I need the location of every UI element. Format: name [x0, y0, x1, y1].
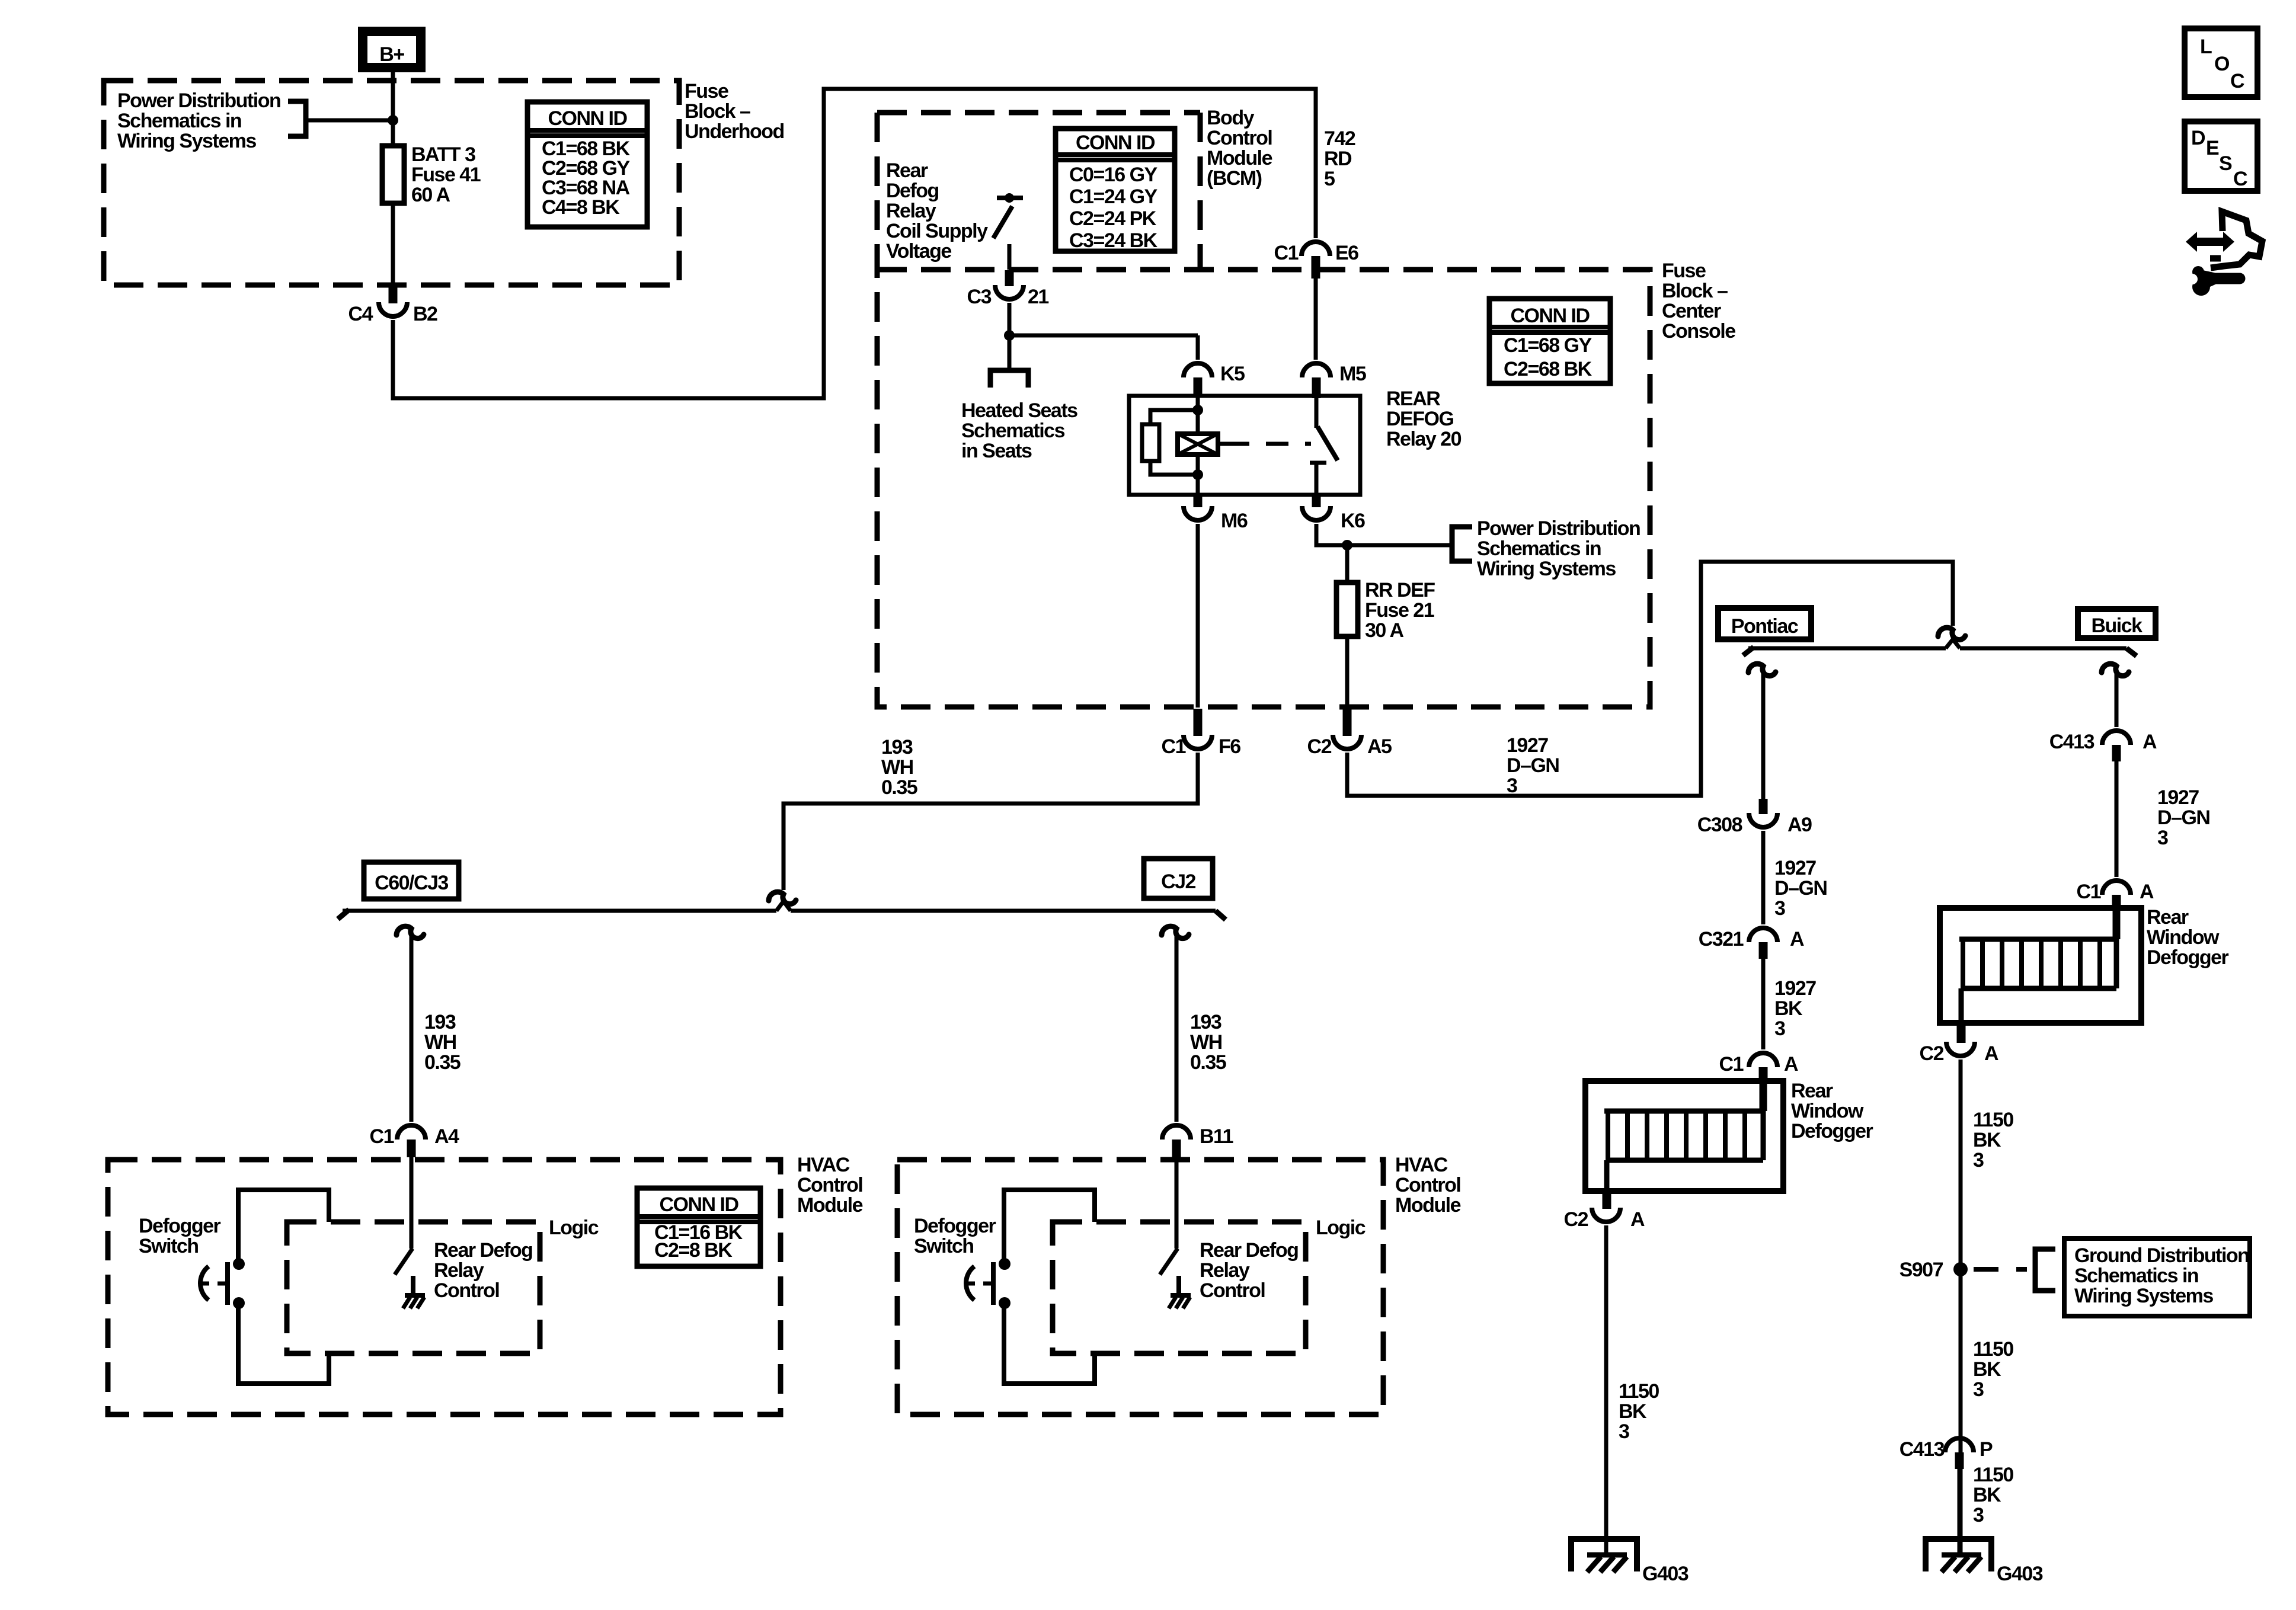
svg-text:30 A: 30 A [1365, 619, 1404, 642]
svg-text:K5: K5 [1220, 363, 1245, 385]
svg-text:S: S [2219, 152, 2232, 175]
vehicle label box: Buick [2078, 609, 2156, 638]
svg-text:3: 3 [1619, 1420, 1629, 1443]
wire: E6 to relay M5 [1314, 279, 1318, 360]
wire: C413 to C1 (Buick) [2115, 761, 2119, 877]
svg-text:C413: C413 [1900, 1438, 1945, 1461]
svg-text:193: 193 [424, 1011, 456, 1033]
svg-text:60 A: 60 A [411, 184, 450, 206]
switch: rear defog relay coil supply (in BCM) [997, 196, 1023, 200]
svg-text:C2: C2 [1564, 1208, 1588, 1231]
svg-text:A: A [2142, 731, 2157, 753]
svg-text:Defogger: Defogger [2147, 946, 2229, 969]
icon box: DESC [2185, 121, 2257, 191]
svg-text:Control: Control [1395, 1174, 1460, 1196]
connector C1/A4 [397, 1125, 426, 1140]
svg-text:WH: WH [1190, 1031, 1222, 1054]
svg-text:A5: A5 [1367, 735, 1392, 758]
svg-text:C0=16 GY: C0=16 GY [1069, 164, 1158, 186]
svg-text:A9: A9 [1787, 814, 1812, 836]
bus tap pigtail at F6 drop [769, 892, 796, 904]
bus drop pigtail (Pontiac) [1748, 664, 1776, 676]
svg-text:C2: C2 [1307, 735, 1332, 758]
junction box label C60/CJ3 [364, 862, 459, 899]
svg-text:BK: BK [1973, 1129, 2001, 1151]
svg-text:Defogger: Defogger [1791, 1120, 1873, 1142]
svg-text:1927: 1927 [1774, 977, 1816, 1000]
svg-text:REAR: REAR [1386, 388, 1440, 410]
junction box label CJ2 [1144, 859, 1213, 898]
svg-text:(BCM): (BCM) [1207, 167, 1262, 190]
connector C413/A [2102, 731, 2131, 745]
svg-text:Wiring Systems: Wiring Systems [2074, 1285, 2213, 1307]
svg-text:BK: BK [1973, 1484, 2001, 1506]
wire: bus to C1/A4 [410, 935, 414, 1122]
svg-text:D–GN: D–GN [1774, 877, 1827, 900]
svg-text:C321: C321 [1699, 928, 1744, 950]
svg-text:C3=24 BK: C3=24 BK [1069, 229, 1158, 252]
svg-text:C1: C1 [1274, 242, 1299, 264]
svg-text:E6: E6 [1335, 242, 1358, 264]
svg-text:C413: C413 [2049, 731, 2094, 753]
connector B11 [1162, 1125, 1191, 1140]
wire: C308 to C321 [1761, 831, 1766, 924]
svg-text:BK: BK [1619, 1400, 1647, 1423]
bus break at F6 drop [776, 901, 791, 911]
CONN ID table (center console) [1489, 299, 1610, 383]
svg-text:B11: B11 [1200, 1125, 1233, 1148]
connector C2/A5 [1343, 709, 1352, 736]
wire: junction to power distribution bracket [1347, 543, 1452, 548]
wire: C4/B2 to BCM E6 [393, 89, 1316, 398]
svg-text:1150: 1150 [1973, 1338, 2013, 1361]
svg-text:D–GN: D–GN [2157, 806, 2209, 829]
svg-text:Heated Seats: Heated Seats [961, 399, 1077, 422]
svg-text:742: 742 [1324, 127, 1355, 150]
svg-text:Fuse 41: Fuse 41 [411, 164, 481, 186]
connector C1/F6 [1194, 709, 1203, 736]
svg-text:BATT 3: BATT 3 [411, 143, 475, 166]
wire: C3/21 down to heated-seats tap [1008, 303, 1012, 369]
bus drop pigtail (right HVAC) [1162, 926, 1189, 938]
svg-text:Defog: Defog [886, 180, 939, 202]
svg-text:Center: Center [1662, 300, 1721, 322]
svg-text:RD: RD [1324, 148, 1352, 170]
svg-text:WH: WH [424, 1031, 456, 1054]
wire: bus to C413 [2115, 673, 2119, 727]
wire to power distribution bracket [306, 119, 393, 123]
svg-text:Relay: Relay [1200, 1259, 1250, 1282]
wire: C2 to ground G403 (Pontiac) [1604, 1225, 1609, 1555]
svg-text:3: 3 [1774, 897, 1785, 920]
push-button defogger switch (right) [999, 1258, 1011, 1270]
dashed box: HVAC Control Module (left) [108, 1160, 781, 1414]
svg-text:HVAC: HVAC [1395, 1154, 1448, 1176]
wire: C413/P to ground G403 (Buick) [1958, 1469, 1962, 1555]
connector M6 [1194, 495, 1203, 507]
off-page bracket: Power Distribution (center) [1452, 527, 1472, 561]
connector C1/E6 [1302, 242, 1330, 256]
svg-text:D–GN: D–GN [1507, 754, 1559, 777]
svg-text:Schematics in: Schematics in [1477, 537, 1601, 560]
junction on B+ feed [388, 115, 398, 126]
svg-text:C: C [2230, 70, 2244, 92]
svg-text:CJ2: CJ2 [1161, 870, 1195, 893]
icon box: LOC [2185, 28, 2257, 97]
svg-text:Logic: Logic [549, 1217, 599, 1239]
svg-text:0.35: 0.35 [881, 776, 917, 799]
connector C413/P [1945, 1438, 1974, 1452]
svg-text:C2=24 PK: C2=24 PK [1069, 207, 1157, 230]
svg-text:F6: F6 [1219, 735, 1240, 758]
vehicle label box: Pontiac [1718, 608, 1811, 639]
svg-text:G403: G403 [1642, 1563, 1689, 1585]
svg-text:1150: 1150 [1973, 1109, 2013, 1131]
svg-text:CONN ID: CONN ID [659, 1193, 738, 1216]
wire: A4 into logic switch [410, 1157, 414, 1249]
wire: C321 to C1 [1761, 959, 1766, 1049]
dashed box: Fuse Block - Center Console [877, 270, 1650, 707]
dashed box: Body Control Module (BCM) [877, 110, 1200, 116]
fuse RR DEF Fuse 21 30 A [1345, 545, 1350, 582]
svg-text:C1=68 GY: C1=68 GY [1504, 334, 1593, 357]
svg-text:Pontiac: Pontiac [1731, 615, 1798, 638]
svg-text:Block –: Block – [685, 100, 750, 123]
Rear Window Defogger (Buick) [1940, 908, 2141, 1023]
svg-text:C2=8 BK: C2=8 BK [654, 1239, 733, 1262]
svg-text:Power Distribution: Power Distribution [1477, 517, 1640, 540]
svg-text:Switch: Switch [914, 1235, 974, 1257]
bus tap pigtail at A5 drop [1938, 628, 1965, 639]
svg-text:Schematics: Schematics [961, 420, 1065, 442]
svg-text:Fuse 21: Fuse 21 [1365, 599, 1434, 622]
svg-text:Rear: Rear [886, 159, 928, 182]
svg-text:C: C [2233, 168, 2247, 190]
svg-text:C2=68 BK: C2=68 BK [1504, 358, 1593, 380]
wire: F6 to C60/CJ3 bus [784, 753, 1198, 890]
svg-text:C4=8 BK: C4=8 BK [542, 196, 620, 219]
svg-text:Defogger: Defogger [139, 1215, 221, 1237]
connector C2/A (Buick defogger) [1957, 1023, 1966, 1043]
junction to K5 [1004, 330, 1015, 341]
svg-text:Coil Supply: Coil Supply [886, 220, 988, 242]
svg-text:193: 193 [881, 736, 913, 758]
svg-text:P: P [1980, 1438, 1993, 1461]
wrench [2192, 266, 2204, 278]
CONN ID table (underhood) [527, 102, 647, 227]
svg-text:A4: A4 [434, 1125, 459, 1148]
connector C3/21 [1005, 270, 1014, 286]
svg-text:5: 5 [1324, 168, 1335, 190]
svg-text:Rear: Rear [2147, 906, 2189, 929]
svg-text:CONN ID: CONN ID [1510, 305, 1590, 327]
svg-text:Relay 20: Relay 20 [1386, 428, 1462, 450]
power symbol B+ [358, 27, 426, 72]
wire: K6 to fuse junction [1316, 524, 1347, 545]
fuse BATT 3 Fuse 41 60 A [382, 146, 404, 203]
connector K5 [1184, 363, 1212, 377]
relay coil branch wiring [1196, 396, 1200, 434]
bus drop pigtail (Buick) [2102, 664, 2129, 676]
svg-text:CONN ID: CONN ID [548, 107, 627, 130]
connector C308/A9 [1759, 799, 1768, 814]
svg-text:M6: M6 [1221, 510, 1248, 532]
svg-text:Schematics in: Schematics in [117, 110, 241, 132]
wire: fuse to C4 connector [391, 203, 395, 285]
svg-text:A: A [1984, 1042, 1998, 1065]
resistor (relay suppression) [1142, 424, 1159, 461]
wire: B11 into logic switch [1175, 1157, 1179, 1249]
svg-text:0.35: 0.35 [424, 1051, 461, 1074]
dashed box: Fuse Block - Underhood [104, 81, 679, 285]
svg-text:Switch: Switch [139, 1235, 199, 1257]
dashed box: Logic (left) [287, 1222, 540, 1353]
svg-text:21: 21 [1028, 286, 1048, 308]
switch carrier box (right defogger switch) [1004, 1190, 1095, 1259]
svg-text:C2: C2 [1920, 1042, 1944, 1065]
CONN ID table (BCM) [1056, 129, 1175, 251]
svg-text:Defogger: Defogger [914, 1215, 996, 1237]
svg-text:B+: B+ [379, 43, 404, 66]
svg-text:1927: 1927 [1774, 857, 1816, 879]
svg-text:Logic: Logic [1316, 1217, 1366, 1239]
svg-text:Wiring Systems: Wiring Systems [1477, 558, 1616, 580]
svg-text:3: 3 [1507, 774, 1517, 797]
svg-text:Rear: Rear [1791, 1080, 1833, 1102]
connector K6 [1312, 495, 1321, 507]
svg-text:C1=24 GY: C1=24 GY [1069, 185, 1158, 208]
switch: rear defog relay control (right) [1160, 1249, 1178, 1275]
svg-text:M5: M5 [1339, 363, 1366, 385]
Rear Window Defogger (Pontiac) [1585, 1081, 1783, 1191]
svg-text:DEFOG: DEFOG [1386, 408, 1453, 430]
dashed link: S907 to ground distribution [1974, 1267, 2027, 1272]
connector C1/A (Pontiac defogger) [1749, 1053, 1777, 1067]
splice S907 [1953, 1262, 1968, 1276]
dashed box: HVAC Control Module (right) [897, 1160, 1383, 1414]
connector M5 [1302, 363, 1331, 377]
svg-text:D: D [2191, 127, 2205, 149]
bus wire C60/CJ3-CJ2 [338, 910, 349, 919]
svg-text:C3: C3 [967, 286, 992, 308]
relay box: REAR DEFOG Relay 20 [1129, 396, 1360, 495]
svg-text:CONN ID: CONN ID [1076, 132, 1155, 154]
switch carrier box (left defogger switch) [238, 1190, 329, 1259]
svg-text:C308: C308 [1697, 814, 1742, 836]
svg-text:S907: S907 [1900, 1259, 1943, 1281]
bus wire Pontiac-Buick [1743, 647, 1754, 655]
dashed box: Logic (right) [1053, 1222, 1306, 1353]
svg-text:Ground Distribution: Ground Distribution [2074, 1244, 2249, 1267]
svg-text:Module: Module [797, 1194, 863, 1217]
svg-text:RR DEF: RR DEF [1365, 579, 1435, 601]
svg-text:A: A [2140, 881, 2154, 903]
connector C2/A (Pontiac defogger) [1603, 1191, 1611, 1209]
ground G403 (Buick) [1926, 1539, 1991, 1571]
svg-text:L: L [2200, 36, 2212, 58]
svg-text:3: 3 [1973, 1504, 1984, 1526]
svg-text:BK: BK [1973, 1358, 2001, 1381]
svg-text:C1: C1 [370, 1125, 394, 1148]
svg-text:Body: Body [1207, 107, 1255, 129]
svg-text:Schematics in: Schematics in [2074, 1265, 2198, 1287]
svg-text:K6: K6 [1341, 510, 1365, 532]
svg-text:Buick: Buick [2091, 614, 2142, 637]
svg-text:Console: Console [1662, 320, 1735, 343]
wire: B+ drop into fuse block [391, 72, 395, 146]
off-page bracket: Ground Distribution [2035, 1249, 2055, 1291]
wire: M6 down to C1/F6 [1196, 524, 1200, 708]
junction at RR DEF fuse [1342, 540, 1352, 550]
svg-text:Voltage: Voltage [886, 240, 951, 263]
svg-text:Window: Window [2147, 926, 2220, 949]
svg-text:3: 3 [1774, 1017, 1785, 1040]
svg-text:3: 3 [1973, 1378, 1984, 1401]
svg-text:A: A [1784, 1053, 1798, 1076]
ground G403 (Pontiac) [1571, 1539, 1637, 1571]
svg-text:C1: C1 [1719, 1053, 1744, 1076]
box: Ground Distribution Schematics in Wiring Systems [2064, 1238, 2250, 1316]
CONN ID table (HVAC) [637, 1188, 760, 1266]
svg-text:Relay: Relay [886, 200, 936, 222]
svg-text:C4: C4 [348, 303, 373, 325]
svg-text:Rear Defog: Rear Defog [434, 1239, 532, 1262]
svg-text:E: E [2206, 137, 2219, 159]
svg-text:Control: Control [1207, 127, 1272, 149]
switch: rear defog relay control (left) [395, 1249, 412, 1275]
svg-text:Block –: Block – [1662, 280, 1728, 302]
wire: junction to K5 [1009, 334, 1198, 338]
svg-text:1927: 1927 [1507, 734, 1548, 757]
svg-text:Module: Module [1395, 1194, 1461, 1217]
svg-text:C1: C1 [1162, 735, 1186, 758]
wire: A5 to Pontiac/Buick bus [1347, 562, 1953, 796]
svg-text:3: 3 [1973, 1149, 1984, 1172]
svg-text:A: A [1790, 928, 1804, 950]
push-button defogger switch (left) [233, 1258, 245, 1270]
svg-text:1150: 1150 [1619, 1380, 1659, 1403]
svg-text:Control: Control [797, 1174, 862, 1196]
svg-text:Window: Window [1791, 1100, 1864, 1122]
svg-text:0.35: 0.35 [1190, 1051, 1226, 1074]
svg-text:Underhood: Underhood [685, 120, 784, 143]
svg-text:WH: WH [881, 756, 913, 779]
svg-text:1150: 1150 [1973, 1464, 2013, 1486]
coil to contact dashed link [1218, 442, 1227, 446]
svg-text:1927: 1927 [2157, 786, 2199, 809]
svg-text:BK: BK [1774, 997, 1803, 1020]
svg-text:Control: Control [1200, 1279, 1265, 1302]
connector C321/A [1749, 928, 1777, 942]
wire: C2 to ground G403 (Buick) [1959, 1060, 1963, 1555]
svg-text:C1: C1 [2077, 881, 2101, 903]
off-page bracket: Power Distribution [288, 101, 306, 136]
svg-text:C60/CJ3: C60/CJ3 [375, 872, 448, 894]
wire: bus to C308 [1761, 673, 1766, 799]
svg-text:Fuse: Fuse [685, 80, 728, 103]
svg-text:193: 193 [1190, 1011, 1221, 1033]
relay coil [1178, 434, 1218, 454]
icon: service tool (arrow + part outline + wrench) [2186, 232, 2234, 252]
svg-text:Rear Defog: Rear Defog [1200, 1239, 1298, 1262]
svg-text:in Seats: in Seats [961, 440, 1032, 462]
svg-text:A: A [1630, 1208, 1645, 1231]
svg-text:3: 3 [2157, 827, 2168, 849]
svg-text:Module: Module [1207, 147, 1272, 169]
svg-text:O: O [2214, 53, 2230, 75]
svg-text:Control: Control [434, 1279, 499, 1302]
bus drop pigtail (left HVAC) [396, 926, 424, 938]
svg-text:Power Distribution: Power Distribution [117, 89, 280, 112]
connector C1/A (Buick defogger) [2102, 881, 2131, 895]
connector C4/B2 [389, 286, 398, 303]
svg-text:G403: G403 [1997, 1563, 2043, 1585]
relay switch contact [1315, 396, 1319, 428]
off-page bracket: Heated Seats [990, 370, 1028, 388]
svg-text:HVAC: HVAC [797, 1154, 850, 1176]
wire: bus to B11 [1175, 935, 1179, 1122]
svg-text:Relay: Relay [434, 1259, 484, 1282]
svg-text:B2: B2 [413, 303, 437, 325]
svg-text:Fuse: Fuse [1662, 260, 1706, 282]
svg-text:Wiring Systems: Wiring Systems [117, 130, 256, 152]
